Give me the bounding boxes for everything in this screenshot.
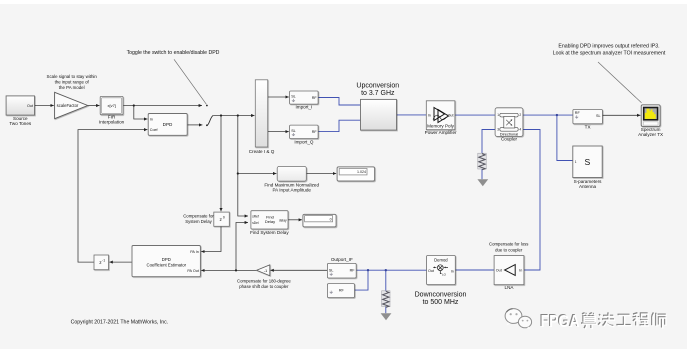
- svg-text:Copyright 2017-2021 The MathWo: Copyright 2017-2021 The MathWorks, Inc.: [71, 319, 169, 325]
- spectrum analyzer bottom strip: [643, 122, 658, 125]
- wire DPD out -> switch bottom input: [187, 124, 202, 126]
- svg-text:-1: -1: [102, 258, 105, 262]
- annotation line to spectrum analyzer: [598, 62, 642, 103]
- block LNA: [494, 256, 524, 285]
- svg-text:Find System Delay: Find System Delay: [250, 230, 289, 235]
- wire CreateIQ -> Import_I: [268, 96, 289, 98]
- node find-max branch: [237, 172, 239, 174]
- RF down-arrow icon (TX): [575, 115, 578, 118]
- wire FindDelay delay -> display: [288, 219, 302, 221]
- svg-text:Scale signal to stay within: Scale signal to stay within: [47, 74, 98, 79]
- wire branch -> RF source block: [355, 270, 369, 290]
- block Import_I: [290, 91, 319, 104]
- svg-text:Interpolation: Interpolation: [99, 120, 125, 125]
- svg-text:Delay: Delay: [265, 219, 275, 224]
- wire Demod Out -> Outport_IF RF: [356, 269, 426, 271]
- svg-text:In: In: [451, 270, 454, 274]
- svg-text:Import_I: Import_I: [295, 105, 312, 110]
- svg-text:Toggle the switch to enable/di: Toggle the switch to enable/disable DPD: [127, 50, 220, 56]
- svg-text:PA In: PA In: [190, 250, 199, 254]
- svg-text:to 500 MHz: to 500 MHz: [423, 299, 459, 306]
- block Memory Poly Power Amplifier: [426, 101, 455, 130]
- gain scaleFactor: [55, 92, 88, 118]
- svg-text:0: 0: [223, 215, 225, 219]
- SL down-arrow icon (Import_I): [292, 99, 295, 102]
- svg-text:due to coupler: due to coupler: [495, 248, 523, 253]
- svg-text:SL: SL: [596, 114, 601, 118]
- svg-text:System Delay: System Delay: [185, 219, 212, 224]
- svg-text:scaleFactor: scaleFactor: [57, 103, 79, 108]
- wire branch x237.8 down to sRef: [238, 116, 248, 217]
- svg-text:Coefficient Estimator: Coefficient Estimator: [147, 262, 187, 267]
- wire PA -> coupler port1: [455, 114, 495, 116]
- SL down-arrow icon (Outport_IF): [330, 273, 333, 276]
- block RF source (lower): [327, 284, 354, 298]
- svg-text:Power Amplifier: Power Amplifier: [425, 130, 457, 135]
- wire branch -> resistor R2: [385, 270, 387, 291]
- WIRES-GRAY: [35, 97, 641, 270]
- block Spectrum Analyzer TX: [641, 105, 660, 127]
- node demod-out / resistor: [385, 269, 387, 271]
- svg-text:1.024: 1.024: [357, 170, 366, 174]
- wire TX -> Spectrum Analyzer: [602, 114, 640, 116]
- svg-text:Demod: Demod: [434, 258, 448, 263]
- svg-text:1: 1: [575, 160, 577, 164]
- svg-text:Coef: Coef: [150, 128, 159, 132]
- svg-text:3: 3: [497, 127, 499, 131]
- wire gain -1 -> PA Out: [201, 269, 256, 271]
- block Import_Q: [290, 125, 319, 139]
- wire z0 out -> PA In: [201, 226, 221, 251]
- wire junction -> antenna: [557, 115, 573, 160]
- svg-text:sRef: sRef: [252, 214, 259, 218]
- wire Import_I RF -> Upconversion in1: [318, 98, 360, 106]
- block z-1 unit delay: [94, 255, 109, 270]
- svg-text:0: 0: [330, 217, 332, 221]
- svg-text:S: S: [585, 157, 591, 167]
- svg-text:RF: RF: [312, 130, 318, 134]
- svg-text:the input range of: the input range of: [55, 80, 90, 85]
- svg-text:delay: delay: [279, 218, 287, 222]
- block Find Maximum Normalized PA Input Amplitude: [277, 166, 306, 181]
- wire LNA Out -> Demod In: [455, 269, 494, 271]
- spectrum trace (yellow): [645, 109, 656, 119]
- wechat logo bubbles: [505, 309, 532, 330]
- svg-text:phase shift due to coupler: phase shift due to coupler: [239, 284, 289, 289]
- svg-text:4: 4: [519, 127, 521, 131]
- svg-text:Memory Poly: Memory Poly: [427, 124, 455, 129]
- svg-text:SL: SL: [291, 129, 296, 133]
- coupler icon (transmission lines + crossed arrows): [500, 113, 518, 131]
- svg-text:Compensate for: Compensate for: [183, 214, 214, 219]
- svg-text:LNA: LNA: [505, 285, 515, 290]
- svg-text:Analyzer TX: Analyzer TX: [638, 132, 663, 137]
- svg-text:TX: TX: [585, 124, 591, 129]
- block Source Two Tones: [6, 96, 34, 115]
- annotation line to switch: [174, 59, 206, 104]
- svg-text:Look at the spectrum analyzer: Look at the spectrum analyzer TOI measur…: [553, 50, 666, 56]
- svg-text:RF: RF: [350, 269, 356, 273]
- svg-text:In: In: [150, 118, 153, 122]
- svg-text:Outport_IF: Outport_IF: [331, 257, 353, 262]
- svg-text:to 3.7 GHz: to 3.7 GHz: [361, 90, 395, 97]
- resistor R2 (IF line load): [382, 291, 390, 307]
- svg-text:Coupler: Coupler: [501, 137, 518, 142]
- block Outport_IF: [327, 263, 356, 278]
- block Display 1.024: [337, 167, 375, 181]
- wire coupler port4 -> LNA In: [523, 130, 540, 271]
- WIRES-BLUE: [318, 98, 573, 314]
- svg-text:Enabling DPD improves output r: Enabling DPD improves output referred IP…: [558, 43, 659, 49]
- svg-text:SL: SL: [291, 95, 296, 99]
- svg-text:SL: SL: [329, 269, 334, 273]
- node switch-out 2: [237, 114, 239, 116]
- svg-text:Upconversion: Upconversion: [356, 83, 399, 90]
- resistor R1 (coupler isolation load): [478, 153, 486, 169]
- block TX: [573, 110, 603, 124]
- svg-text:sDel: sDel: [252, 221, 259, 225]
- node switch-out 1: [220, 114, 222, 116]
- wire CreateIQ -> Import_Q: [268, 131, 289, 133]
- wire branch x221 down to z0: [220, 116, 222, 212]
- block Directional Coupler: [495, 108, 523, 137]
- svg-text:RF: RF: [339, 288, 345, 292]
- spectrum analyzer icon screen: [643, 107, 659, 121]
- svg-text:LO: LO: [442, 273, 447, 277]
- svg-text:x[v7]: x[v7]: [107, 103, 115, 108]
- wire Upconversion -> PA: [397, 114, 427, 116]
- wire FIR->switch top input: [123, 105, 202, 107]
- block Create I & Q: [255, 80, 267, 147]
- wire estimator -> z-1: [109, 261, 132, 263]
- wire FindMax -> display 1.024: [306, 173, 336, 175]
- node after FIR: [133, 104, 135, 106]
- block z0 delay (compensate system delay): [214, 212, 230, 226]
- svg-text:In: In: [428, 114, 431, 118]
- switch (manual switch lever + port stubs): [207, 116, 213, 126]
- wire scaleFactor->FIR: [88, 105, 100, 107]
- wire branch to DPD In: [134, 106, 148, 120]
- wire Outport_IF SL -> gain -1: [270, 269, 327, 271]
- wire coupler port2 -> TX: [523, 114, 573, 116]
- svg-text:Out: Out: [27, 104, 33, 108]
- LNA triangle icon: [505, 265, 516, 276]
- block Display (find delay value): [303, 214, 336, 227]
- svg-text:Downconversion: Downconversion: [415, 292, 467, 299]
- wire branch -> Find Max: [238, 173, 277, 175]
- wire branch x236 up to sDel: [236, 223, 248, 271]
- wire coef feedback: z-1 -> DPD Coef: [78, 130, 147, 263]
- svg-text:Compensate for 180-degree: Compensate for 180-degree: [237, 279, 291, 284]
- svg-text:Out: Out: [428, 269, 434, 273]
- svg-text:PA Input Amplitude: PA Input Amplitude: [272, 187, 311, 192]
- svg-text:Import_Q: Import_Q: [294, 139, 314, 144]
- block S-parameters Antenna: [573, 146, 602, 178]
- svg-text:the PA model: the PA model: [59, 85, 85, 90]
- ground (below R2): [381, 313, 392, 320]
- wire switch out -> Create I&Q: [213, 115, 254, 117]
- wire coupler port3 -> resistor R1: [482, 130, 495, 154]
- down-arrow icon (RF source block): [330, 291, 333, 294]
- svg-text:Antenna: Antenna: [579, 184, 597, 189]
- BLOCKS: [6, 80, 660, 298]
- svg-text:DPD: DPD: [163, 122, 173, 127]
- svg-text:Out: Out: [496, 269, 502, 273]
- port labels: [27, 95, 600, 293]
- block Upconversion: [361, 99, 397, 130]
- wire Source->scaleFactor: [35, 105, 54, 107]
- WATERMARK: [505, 309, 667, 331]
- svg-text:In: In: [519, 269, 522, 273]
- node feedback sDel branch: [235, 269, 237, 271]
- svg-text:Two Tones: Two Tones: [9, 121, 32, 126]
- svg-text:RF: RF: [575, 111, 581, 115]
- block DPD Coefficient Estimator: [132, 246, 200, 277]
- svg-text:2: 2: [519, 113, 521, 117]
- svg-text:Out: Out: [448, 114, 454, 118]
- svg-text:PA Out: PA Out: [187, 269, 198, 273]
- svg-text:Create I & Q: Create I & Q: [249, 149, 275, 154]
- wire resistor R1 -> ground: [481, 169, 483, 179]
- svg-text:FPGA: FPGA: [541, 311, 580, 331]
- svg-text:Compensate for loss: Compensate for loss: [489, 242, 528, 247]
- block DPD: [148, 114, 187, 136]
- node demod-out / rf block: [367, 269, 369, 271]
- svg-text:DPD: DPD: [162, 257, 171, 262]
- block Find Delay: [251, 211, 288, 229]
- junction dots gray: [133, 104, 239, 271]
- ground (below R1): [477, 179, 488, 186]
- junction dots blue: [367, 114, 558, 272]
- wire Import_Q RF -> Upconversion in2: [318, 120, 360, 131]
- svg-text:1: 1: [497, 113, 499, 117]
- demod mixer icon: [434, 265, 448, 274]
- op-amp icon in Memory Poly PA: [433, 108, 449, 123]
- gain -1 (invert for coupler phase): [257, 265, 270, 276]
- node coupler out / antenna: [556, 114, 558, 116]
- svg-text:RF: RF: [312, 96, 318, 100]
- SL down-arrow icon (Import_Q): [292, 133, 295, 136]
- svg-text:Directional: Directional: [500, 131, 519, 136]
- block Demod: [427, 256, 456, 285]
- block FIR Interpolation: [100, 96, 123, 114]
- wire resistor R2 -> ground: [385, 306, 387, 313]
